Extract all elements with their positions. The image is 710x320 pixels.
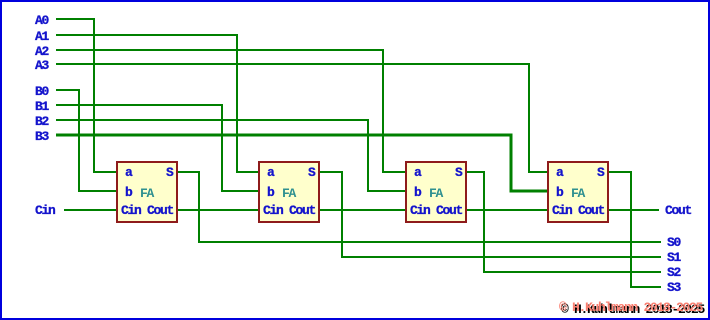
svg-text:© H.Kuhlmann 2018-2025: © H.Kuhlmann 2018-2025 — [559, 300, 704, 315]
wire FA3 Cout to FA4 Cin — [466, 209, 549, 211]
svg-text:Cout: Cout — [289, 203, 316, 218]
svg-text:Cin: Cin — [552, 203, 573, 218]
svg-text:B0: B0 — [35, 84, 50, 99]
wire FA4 Cout to output — [608, 209, 659, 211]
svg-text:Cout: Cout — [147, 203, 174, 218]
svg-text:A2: A2 — [35, 44, 50, 59]
svg-text:Cin: Cin — [410, 203, 431, 218]
wire B0 to FA1 pin b — [56, 90, 117, 191]
wire FA1 Cout to FA2 Cin — [177, 209, 260, 211]
wire Cin to FA1 — [64, 209, 117, 211]
wire FA1 S to S0 — [177, 172, 661, 242]
svg-text:S2: S2 — [667, 265, 682, 280]
svg-text:Cout: Cout — [578, 203, 605, 218]
svg-text:FA: FA — [282, 186, 297, 201]
svg-text:A1: A1 — [35, 29, 50, 44]
full adder U2 — [259, 162, 319, 222]
wire A3 to FA4 pin a — [56, 64, 549, 172]
svg-text:Cout: Cout — [436, 203, 463, 218]
svg-text:B1: B1 — [35, 99, 50, 114]
wire A1 to FA2 pin a — [56, 35, 260, 172]
svg-text:Cin: Cin — [263, 203, 284, 218]
svg-text:S0: S0 — [667, 235, 682, 250]
wire FA2 Cout to FA3 Cin — [319, 209, 407, 211]
wire FA2 S to S1 — [319, 172, 661, 257]
svg-text:Cin: Cin — [35, 203, 56, 218]
copyright text — [559, 300, 706, 317]
svg-text:A3: A3 — [35, 58, 50, 73]
wire B1 to FA2 pin b — [56, 105, 260, 191]
svg-text:A0: A0 — [35, 13, 50, 28]
svg-text:S3: S3 — [667, 280, 682, 295]
full adder U1 — [117, 162, 177, 222]
full adder U3 — [406, 162, 466, 222]
wire A0 to FA1 pin a — [56, 19, 117, 172]
svg-text:FA: FA — [429, 186, 444, 201]
wire B2 to FA3 pin b — [56, 120, 407, 191]
svg-text:Cin: Cin — [121, 203, 142, 218]
svg-text:Cout: Cout — [665, 203, 692, 218]
svg-text:B3: B3 — [35, 129, 50, 144]
wire FA4 S to S3 — [608, 172, 661, 287]
wire B3 to FA4 pin b — [56, 135, 549, 191]
full adder U4 — [548, 162, 608, 222]
svg-text:B2: B2 — [35, 114, 50, 129]
svg-text:S1: S1 — [667, 250, 682, 265]
wire FA3 S to S2 — [466, 172, 661, 272]
wire A2 to FA3 pin a — [56, 50, 407, 172]
svg-text:FA: FA — [571, 186, 586, 201]
svg-text:FA: FA — [140, 186, 155, 201]
